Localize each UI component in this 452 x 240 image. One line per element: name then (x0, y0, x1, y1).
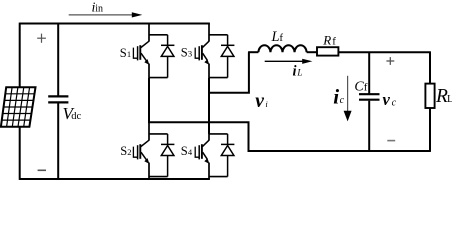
svg-text:c: c (392, 97, 397, 108)
IGBT S2 (133, 122, 149, 179)
svg-text:L: L (296, 68, 302, 78)
label v_c (383, 90, 397, 109)
resistor RL lead upper (429, 52, 431, 83)
label Lf (271, 29, 284, 45)
IGBT S4 (195, 122, 209, 179)
label v_i (255, 91, 268, 112)
svg-text:S: S (181, 144, 188, 158)
plus mark Vdc (37, 34, 46, 43)
diode D4 (209, 134, 234, 177)
svg-text:f: f (279, 32, 283, 44)
svg-text:v: v (255, 91, 264, 112)
svg-text:c: c (340, 95, 345, 106)
wire upper output to filter (209, 52, 249, 92)
svg-text:4: 4 (188, 147, 193, 157)
label Rf (322, 33, 336, 48)
label S3 (181, 46, 192, 60)
wire lower output (149, 122, 431, 151)
IGBT S1 (133, 24, 149, 78)
minus mark output (387, 140, 395, 142)
svg-text:f: f (332, 36, 336, 48)
wire Cf branch lower (368, 101, 370, 151)
label S2 (120, 144, 131, 158)
arrow i_L (265, 59, 313, 64)
diode D2 (149, 134, 174, 177)
label S1 (120, 46, 131, 60)
capacitor Cf (359, 94, 380, 100)
arrow i_in (69, 12, 143, 17)
wire Cf branch upper (368, 52, 370, 94)
svg-text:L: L (447, 94, 452, 105)
minus mark Vdc (38, 169, 46, 171)
label RL (435, 86, 452, 107)
wire capacitor branch lower (57, 103, 59, 180)
svg-text:2: 2 (127, 147, 131, 157)
svg-text:dc: dc (71, 111, 81, 122)
svg-text:R: R (322, 33, 331, 48)
label i_c (333, 85, 344, 109)
svg-text:f: f (364, 82, 368, 94)
wire left vertical (PV branch) (19, 23, 21, 180)
wire filter to load (338, 51, 431, 53)
capacitor Vdc (48, 96, 68, 102)
wire bottom DC rail (19, 178, 210, 180)
svg-text:1: 1 (127, 49, 131, 59)
svg-text:in: in (95, 4, 103, 15)
diode D3 (209, 35, 234, 78)
svg-text:L: L (271, 29, 280, 45)
svg-text:S: S (181, 46, 188, 60)
arrow i_c (344, 76, 352, 122)
label S4 (181, 144, 193, 158)
inductor Lf (248, 45, 317, 52)
svg-text:v: v (383, 90, 391, 109)
plus mark output (386, 57, 394, 65)
wire left leg midpoint vertical (148, 78, 150, 124)
svg-text:i: i (333, 85, 339, 109)
solar panel PV (1, 87, 36, 127)
wire capacitor branch upper (57, 23, 59, 96)
resistor RL (425, 84, 434, 108)
svg-text:S: S (120, 144, 127, 158)
label Vdc (63, 104, 82, 123)
svg-text:i: i (293, 64, 297, 80)
resistor RL lead lower (429, 108, 431, 151)
resistor Rf (317, 47, 338, 55)
label i_L (293, 64, 303, 80)
wire top DC rail (19, 23, 210, 25)
svg-text:3: 3 (188, 49, 192, 59)
diode D1 (149, 35, 174, 78)
label Cf (354, 80, 367, 95)
wire right leg midpoint vertical (208, 78, 210, 134)
svg-text:S: S (120, 46, 127, 60)
label i_in (92, 1, 103, 16)
IGBT S3 (195, 24, 209, 78)
svg-text:i: i (265, 99, 268, 109)
